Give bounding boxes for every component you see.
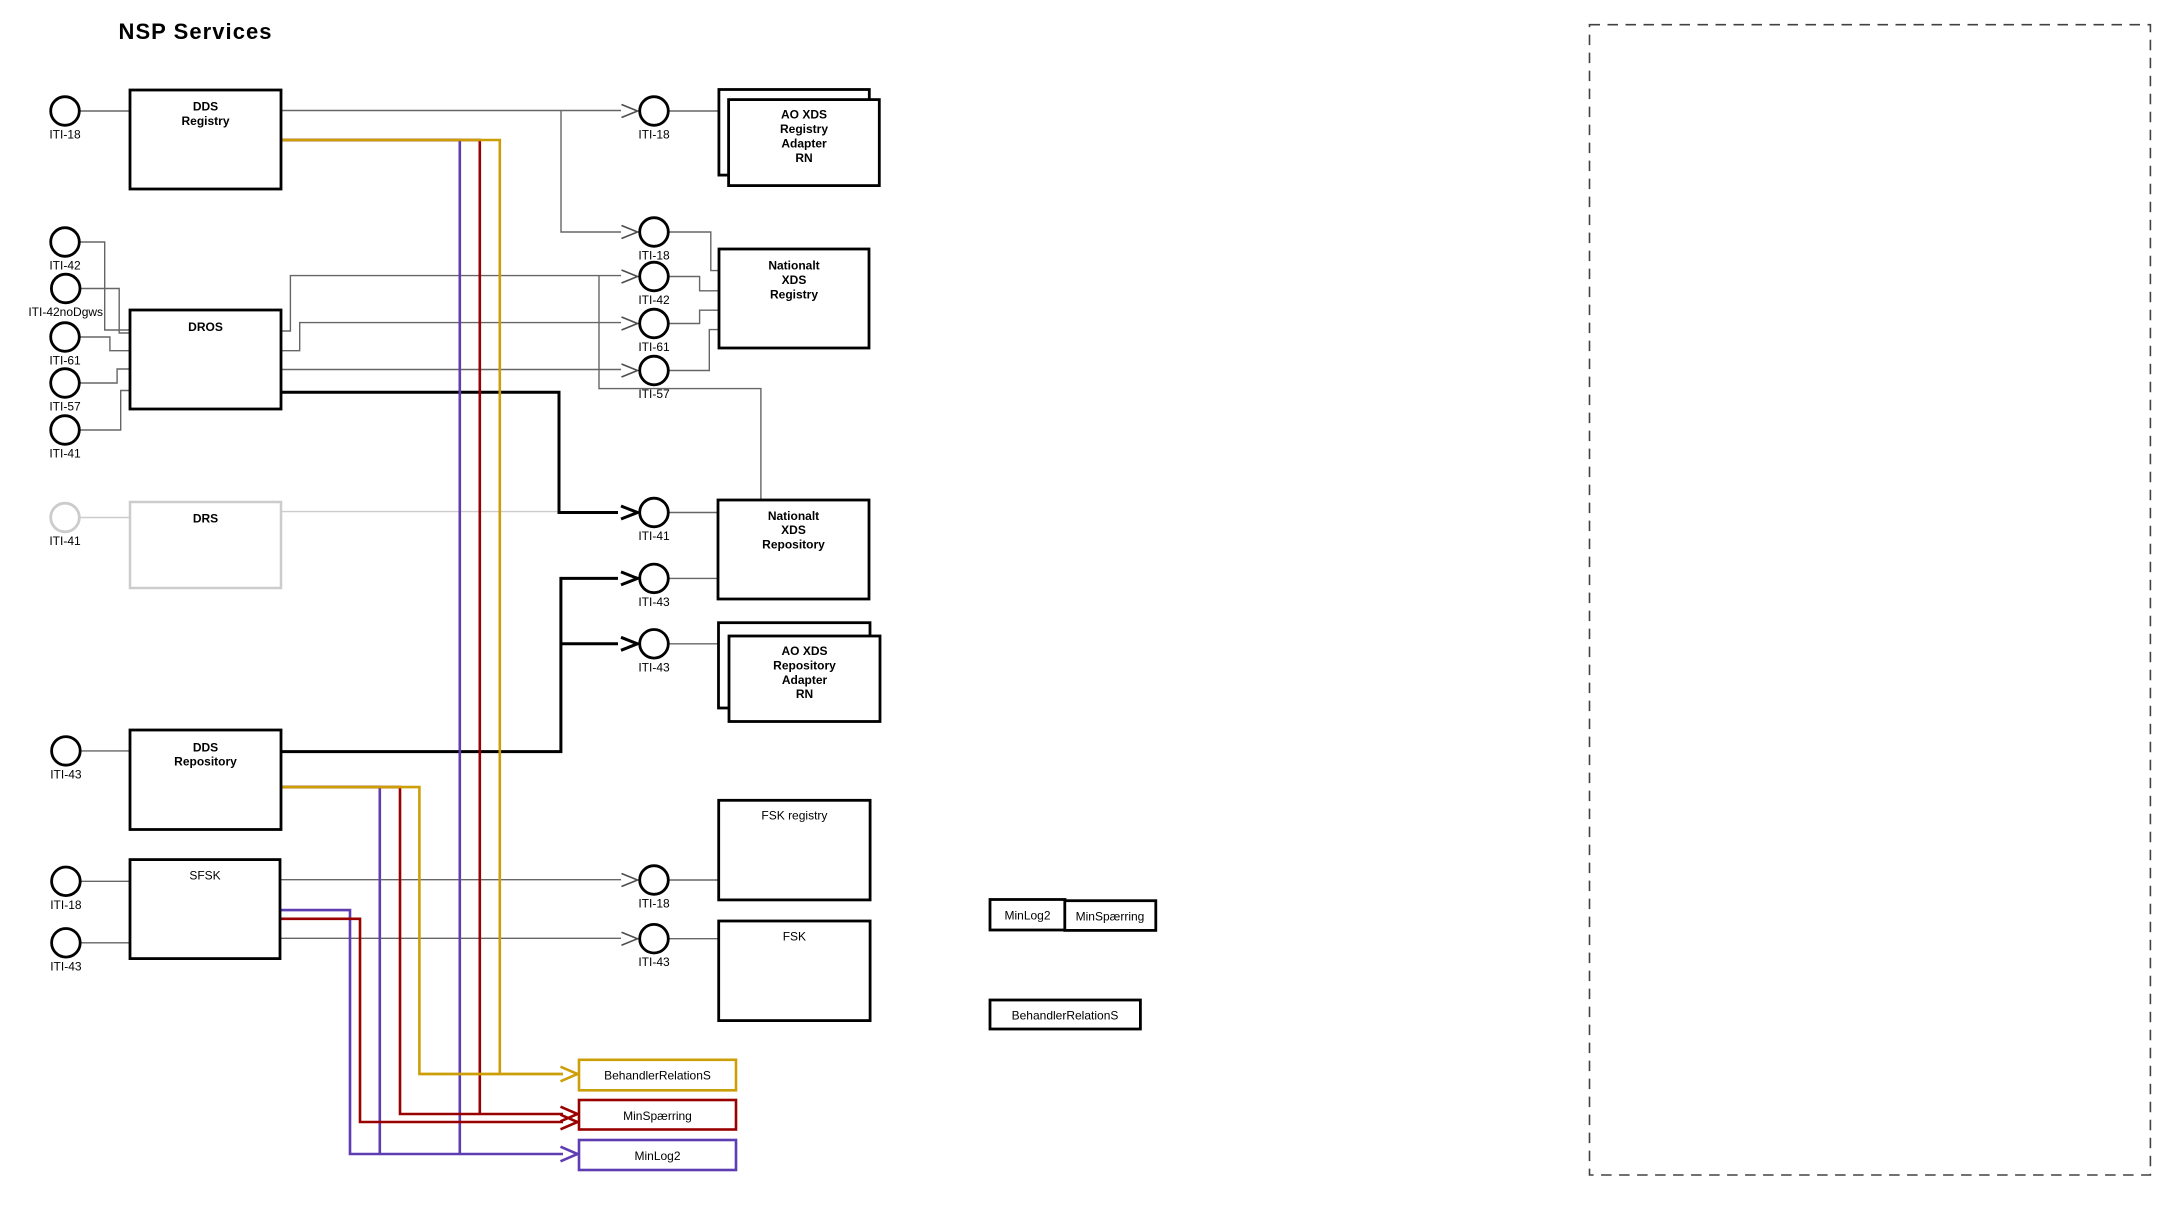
svg-text:Registry: Registry <box>181 114 229 128</box>
svg-text:ITI-57: ITI-57 <box>638 387 670 401</box>
svg-text:FSK: FSK <box>783 930 806 944</box>
svg-text:ITI-61: ITI-61 <box>49 354 81 368</box>
svg-text:Repository: Repository <box>174 755 237 769</box>
svg-text:DRS: DRS <box>193 512 218 526</box>
svg-text:Registry: Registry <box>780 122 828 136</box>
svg-text:BehandlerRelationS: BehandlerRelationS <box>1012 1009 1119 1023</box>
svg-text:XDS: XDS <box>782 273 807 287</box>
svg-text:Nationalt: Nationalt <box>768 509 819 523</box>
svg-text:RN: RN <box>796 687 813 701</box>
svg-text:MinLog2: MinLog2 <box>1004 909 1050 923</box>
svg-text:MinSpærring: MinSpærring <box>1076 910 1145 924</box>
svg-text:DDS: DDS <box>193 100 218 114</box>
svg-text:Repository: Repository <box>762 538 825 552</box>
svg-text:ITI-42: ITI-42 <box>49 259 81 273</box>
svg-text:AO XDS: AO XDS <box>781 644 827 658</box>
svg-text:ITI-18: ITI-18 <box>50 898 82 912</box>
svg-text:ITI-57: ITI-57 <box>49 400 81 414</box>
svg-text:Registry: Registry <box>770 287 818 301</box>
svg-text:ITI-18: ITI-18 <box>638 249 670 263</box>
svg-text:ITI-18: ITI-18 <box>638 897 670 911</box>
svg-text:ITI-43: ITI-43 <box>50 767 82 781</box>
svg-text:NSP Services: NSP Services <box>119 19 273 44</box>
svg-text:MinSpærring: MinSpærring <box>623 1109 692 1123</box>
svg-text:ITI-43: ITI-43 <box>638 595 670 609</box>
svg-text:BehandlerRelationS: BehandlerRelationS <box>604 1069 711 1083</box>
svg-text:RN: RN <box>795 151 812 165</box>
svg-text:ITI-43: ITI-43 <box>50 959 82 973</box>
svg-text:Repository: Repository <box>773 658 836 672</box>
svg-text:DDS: DDS <box>193 740 218 754</box>
svg-text:Nationalt: Nationalt <box>768 259 819 273</box>
svg-text:ITI-43: ITI-43 <box>638 955 670 969</box>
svg-text:Adapter: Adapter <box>781 136 827 150</box>
svg-text:ITI-42: ITI-42 <box>638 293 670 307</box>
svg-text:DROS: DROS <box>188 320 223 334</box>
svg-text:Adapter: Adapter <box>782 673 828 687</box>
svg-text:ITI-42noDgws: ITI-42noDgws <box>28 305 103 319</box>
svg-text:AO XDS: AO XDS <box>781 108 827 122</box>
svg-text:SFSK: SFSK <box>189 869 220 883</box>
svg-text:ITI-43: ITI-43 <box>638 660 670 674</box>
svg-text:ITI-41: ITI-41 <box>638 529 670 543</box>
svg-text:ITI-41: ITI-41 <box>49 534 81 548</box>
svg-text:ITI-61: ITI-61 <box>638 340 670 354</box>
svg-text:FSK registry: FSK registry <box>761 809 827 823</box>
svg-text:ITI-41: ITI-41 <box>49 447 81 461</box>
svg-text:MinLog2: MinLog2 <box>634 1149 680 1163</box>
svg-text:ITI-18: ITI-18 <box>49 128 81 142</box>
svg-text:ITI-18: ITI-18 <box>638 128 670 142</box>
svg-text:XDS: XDS <box>781 523 806 537</box>
